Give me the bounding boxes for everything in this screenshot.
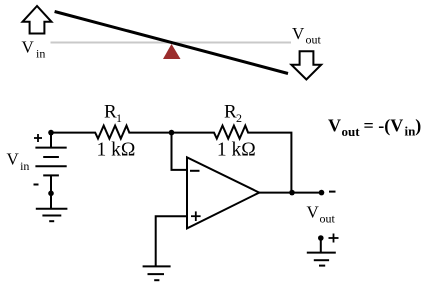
svg-text:1 kΩ: 1 kΩ [217,140,256,161]
svg-text:in: in [20,159,29,173]
svg-text:V: V [307,203,320,222]
svg-text:out: out [342,124,361,139]
svg-text:): ) [415,116,421,137]
svg-text:1 kΩ: 1 kΩ [97,140,136,161]
svg-text:in: in [36,47,45,61]
svg-text:V: V [7,150,20,169]
svg-text:V: V [292,24,305,43]
svg-text:1: 1 [116,111,122,125]
svg-text:=: = [364,116,374,136]
svg-text:out: out [306,33,322,47]
svg-text:-(V: -(V [378,116,403,137]
svg-text:V: V [328,116,341,136]
svg-text:V: V [22,38,35,57]
svg-text:out: out [320,211,336,225]
svg-text:2: 2 [236,111,242,125]
